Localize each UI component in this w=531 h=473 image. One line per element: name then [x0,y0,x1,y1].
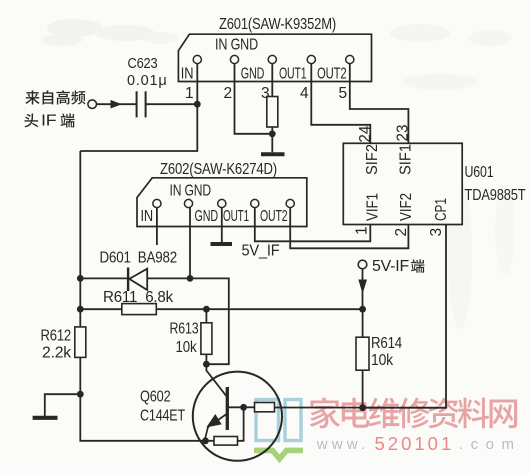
wire Z602 OUT1 to U601 pin1 VIF1 [255,208,370,242]
5V-IF feed arrow [358,280,367,294]
junction dot left rail / R611 [77,306,84,313]
svg-text:Q602: Q602 [140,389,171,406]
svg-text:VIF1: VIF1 [365,193,382,221]
resistor R612 [75,327,86,358]
svg-text:5V_IF: 5V_IF [242,243,280,260]
ground bar below Z601 pin3 [261,152,285,156]
input terminal [88,100,97,109]
U601 IC body TDA9885T [343,143,462,224]
svg-text:www.: www. [316,436,370,453]
junction dot R614 bottom rail [359,404,366,411]
svg-text:TDA9885T: TDA9885T [465,187,526,204]
svg-text:R613: R613 [170,321,199,338]
wire Z601 pin5 to U601 pin23 [350,64,409,144]
transistor Q602 circle [193,372,282,461]
Q602 internal base-emitter resistor [214,437,238,446]
svg-text:OUT2: OUT2 [317,66,347,83]
svg-text:10k: 10k [176,339,198,356]
wire R614 top stem [362,309,364,337]
Q602 base bar [226,387,229,430]
wire diode row [80,277,190,279]
svg-text:5V-IF: 5V-IF [372,258,409,275]
svg-text:C144ET: C144ET [140,408,185,425]
svg-text:C623: C623 [128,56,158,72]
resistor on Z601 pin3 (unlabeled) [267,97,278,128]
junction dot 5V-IF node [359,306,366,313]
svg-text:OUT2: OUT2 [260,208,288,225]
wire left rail [80,151,205,441]
wire R614 bottom stem [362,370,364,408]
resistor R613 [201,323,212,355]
wire Z602 pin1 IN stub [156,208,158,246]
wire series resistor to bottom-right rail [274,407,446,409]
svg-text:CP1: CP1 [433,198,450,221]
wire Z601 pin4 to U601 pin24 [311,64,370,144]
faint scan smudges top-left [42,19,178,46]
wire C623 to node A [146,103,198,105]
svg-text:GND: GND [195,208,219,225]
input label 来自高频 [25,90,39,104]
svg-text:SIF1: SIF1 [398,144,415,175]
Z601 pin 5 circle [346,55,354,63]
capacitor C623 [137,91,146,117]
Q602 emitter arrow [206,414,221,427]
wire base node to series resistor [244,406,255,408]
svg-text:1: 1 [185,85,194,102]
svg-text:2: 2 [393,228,410,237]
node A junction dot (C623/Z601 pin1) [194,101,201,108]
watermark book icon right page [285,400,301,441]
Z602 pin 3 circle [218,199,226,207]
svg-text:24: 24 [357,125,374,142]
junction dot left rail / diode anode [77,275,84,282]
svg-text:5: 5 [339,85,348,102]
svg-text:4: 4 [300,85,309,102]
input label 头IF端 [24,113,38,127]
svg-text:SIF2: SIF2 [364,144,381,175]
svg-text:Z601(SAW-K9352M): Z601(SAW-K9352M) [219,16,336,33]
svg-text:1: 1 [354,226,371,235]
junction dot Z601 pin2/pin3 ground node [269,130,276,137]
wire Z602 pin3 GND stem [221,208,223,243]
svg-text:23: 23 [395,125,412,142]
wire node A down-left to left rail [80,104,197,151]
wire mid rail R611 row [80,308,362,310]
Q602 internal base series resistor [255,403,275,412]
svg-text:U601: U601 [465,164,494,181]
wire R613 bottom stem [205,354,207,364]
Z601 pin 2 circle [230,55,238,63]
svg-text:0.01μ: 0.01μ [127,73,167,89]
junction dot R613 bottom / collector [203,361,210,368]
wire R613 top stem [205,309,207,323]
Z602 pin 2 circle [184,199,192,207]
svg-text:OUT1: OUT1 [279,66,307,83]
Z601 pin 4 circle [307,55,315,63]
wire Z601 pin2 stem to pin3 ground node [235,64,273,134]
svg-text:2.2k: 2.2k [42,345,72,362]
Z602 SAW filter body [137,178,307,227]
svg-text:VIF2: VIF2 [398,193,415,221]
svg-text:GND: GND [241,66,264,83]
svg-text:2: 2 [224,85,233,102]
svg-text:R611 6.8k: R611 6.8k [103,289,174,306]
svg-text:.com: .com [459,436,522,453]
Z602 pin 5 circle [286,199,294,207]
wire Z601 pin3 stem [271,64,273,98]
Z602 pin 1 circle [153,199,161,207]
wire U601 pin3 CP1 down to bottom rail [363,225,446,408]
input arrow [111,100,122,109]
5V-IF terminal circle [358,260,367,269]
wire internal resistor up to base node [237,407,243,441]
wire Z601 pin3 resistor to ground [271,127,273,153]
wire Z602 pin2 stem to diode node [189,208,191,279]
svg-text:R612: R612 [41,328,72,345]
wire Z602 OUT2 to U601 pin2 VIF2 [290,208,408,249]
ground bar below Z602 GND pin [211,242,233,246]
svg-text:Z602(SAW-K6274D): Z602(SAW-K6274D) [160,161,277,178]
wire emitter to internal resistor [206,440,215,442]
svg-text:D601 BA982: D601 BA982 [100,250,178,267]
Q602 emitter line [205,414,228,440]
wire diode node right-down to R613 bottom node [190,278,229,364]
diode D601 BA982 [128,268,147,292]
resistor R611 [122,304,157,315]
wire input terminal to C623 [97,103,136,105]
svg-text:3: 3 [428,228,445,237]
wire Q602 collector [206,364,226,396]
ground bar lower-left [33,416,58,420]
svg-text:R614: R614 [371,335,402,352]
svg-text:IN GND: IN GND [215,37,258,54]
svg-text:OUT1: OUT1 [223,208,249,225]
svg-text:IN: IN [181,66,194,83]
junction dot emitter [202,437,209,444]
junction dot ground branch [77,391,84,398]
svg-text:IF: IF [41,113,57,130]
wire 5V-IF terminal stem [362,269,364,309]
Z601 SAW filter body [178,34,371,81]
watermark book icon left page [256,400,279,441]
junction dot base node [240,404,247,411]
Z602 pin 4 circle [251,199,259,207]
wire Z601 pin1 stem [196,64,198,105]
svg-text:520101: 520101 [375,433,455,454]
junction dot R611 / R613 top [203,306,210,313]
svg-text:IN: IN [141,208,154,225]
wire ground branch lower-left [45,394,81,416]
Z601 pin 1 circle [193,55,201,63]
junction dot diode cathode / Z602 pin2 [187,275,194,282]
Z601 pin 3 circle [268,55,276,63]
resistor R614 [356,337,369,370]
svg-text:10k: 10k [371,352,394,369]
watermark text 家电维修资料网 [310,397,340,428]
svg-text:IN GND: IN GND [170,183,212,200]
wire Q602 base lead [227,406,243,408]
faint scan smudges top-right [390,24,515,330]
watermark green check mark [254,450,303,458]
